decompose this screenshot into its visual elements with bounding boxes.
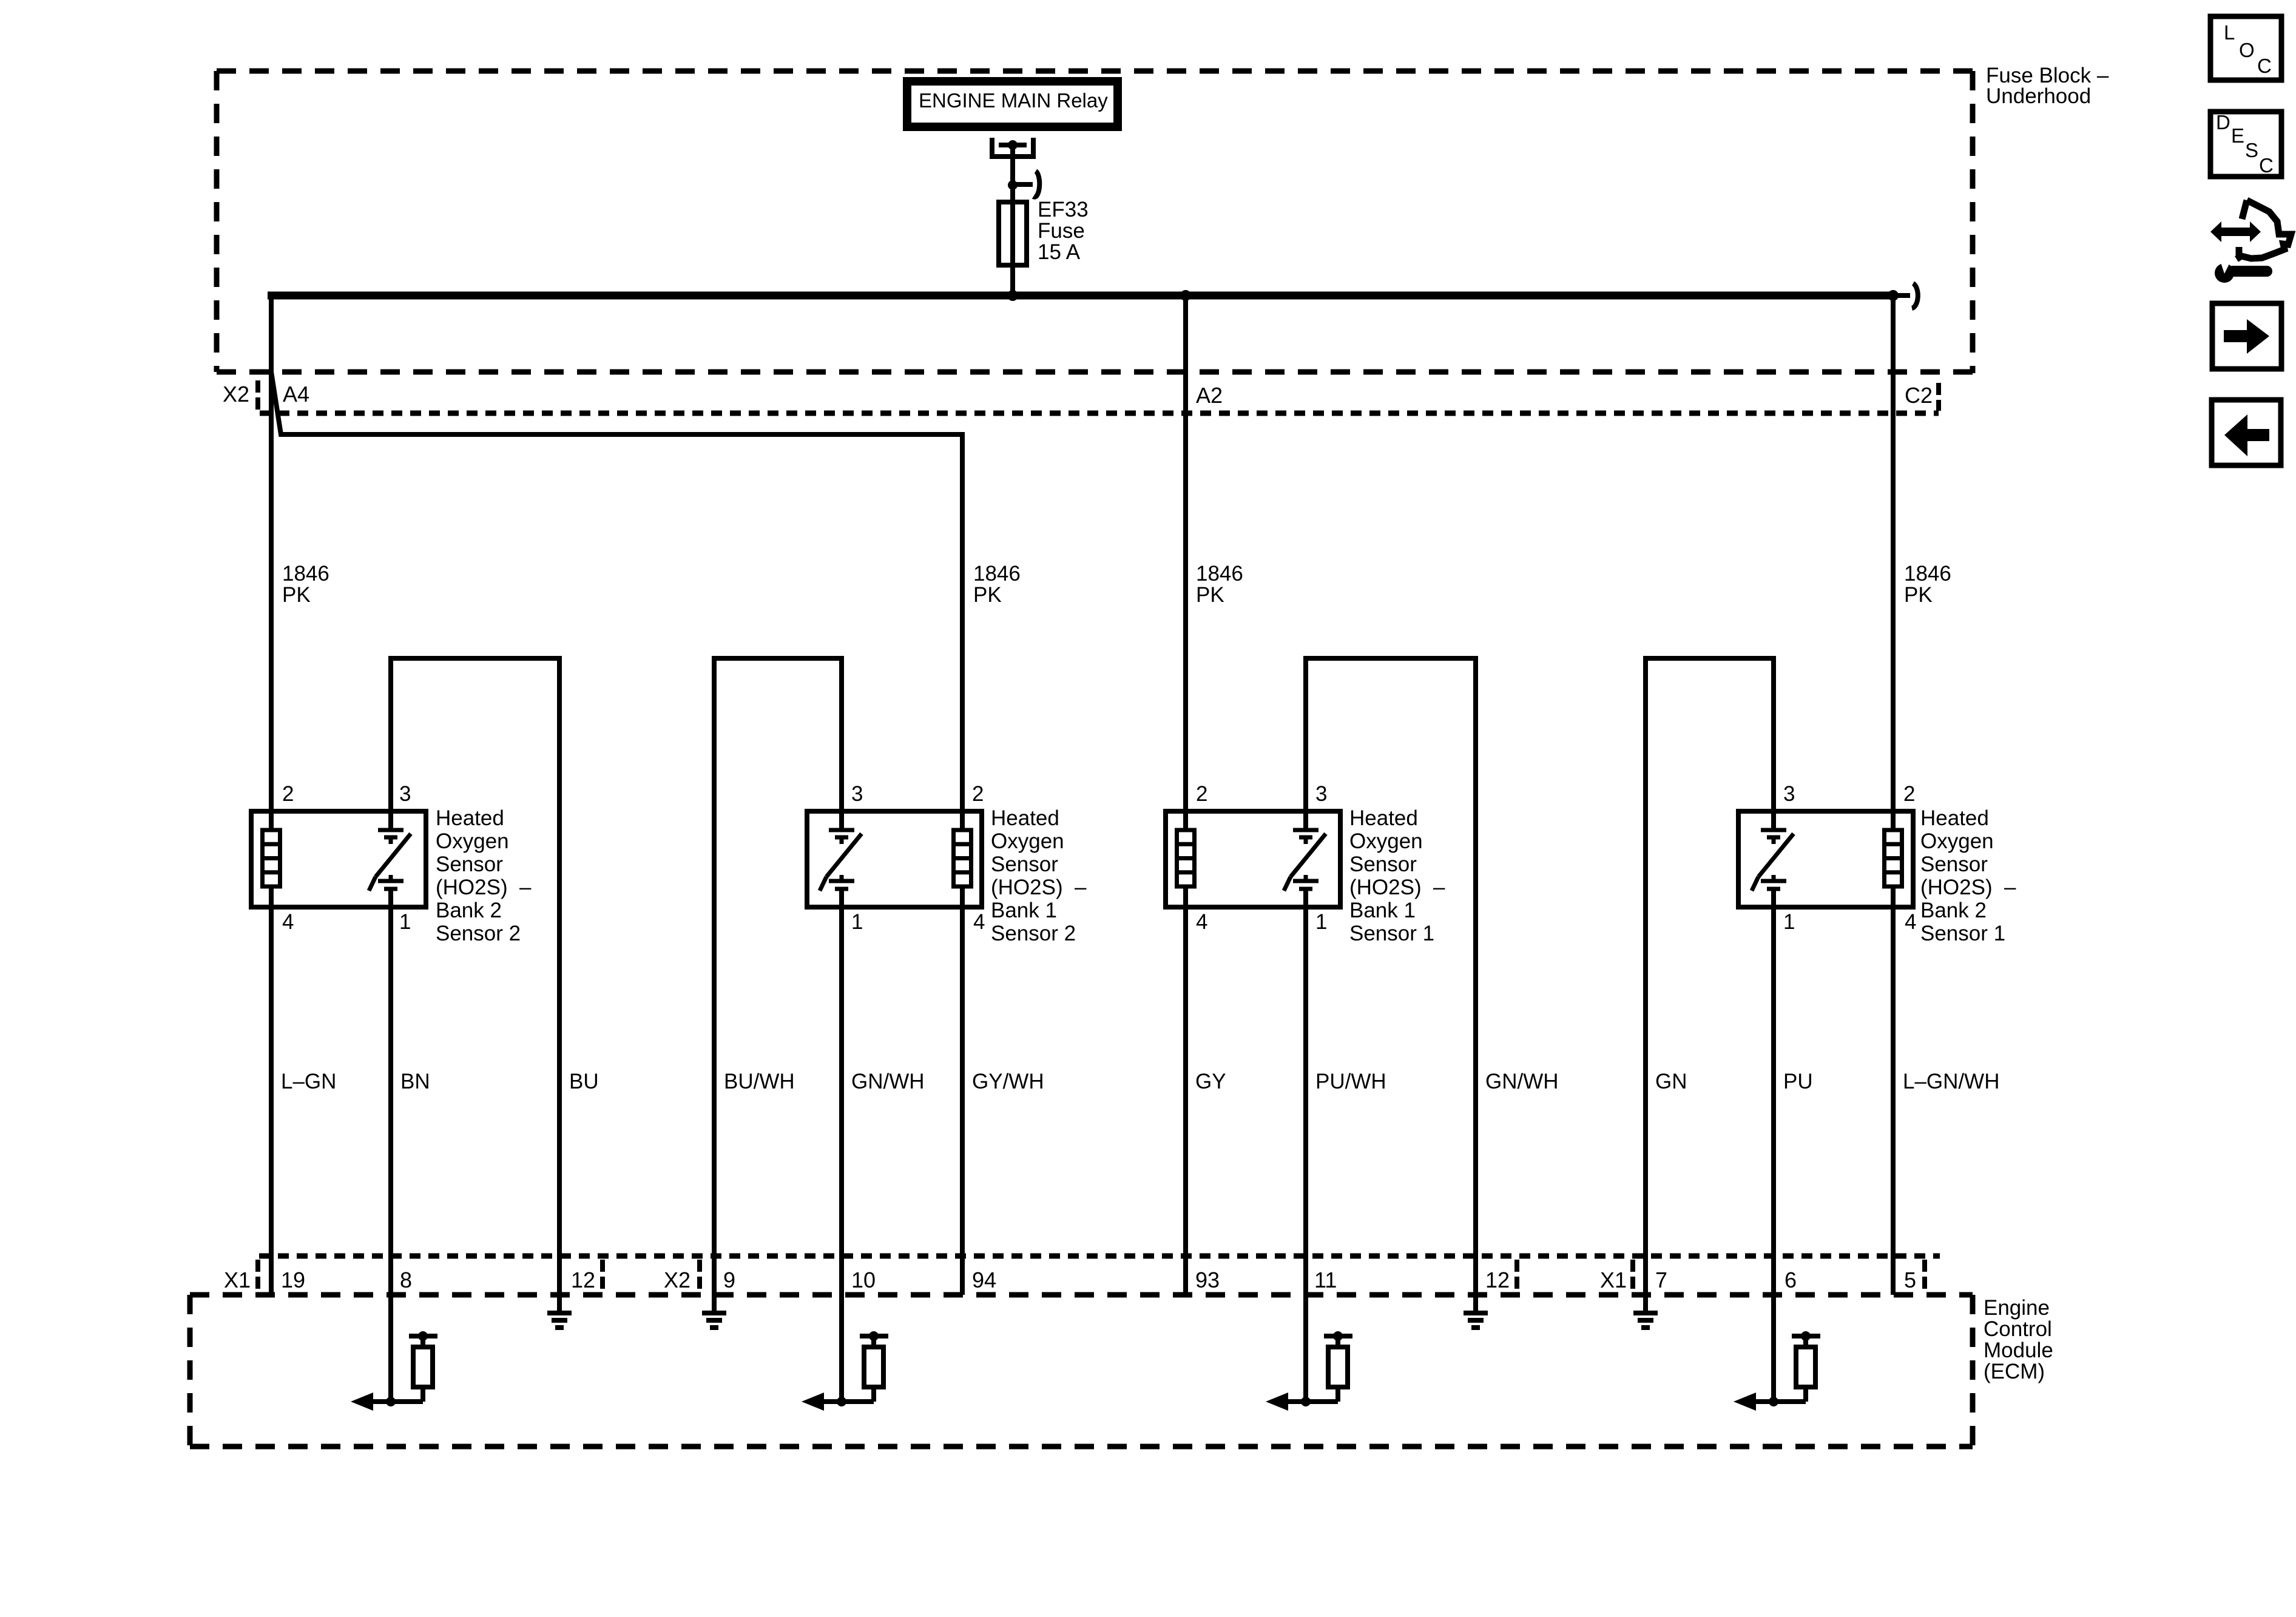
ECM dashed box right border: [1970, 1295, 1976, 1447]
wire A4 branch diagonal and crossover to sensor 2: [271, 372, 962, 811]
heater element bottom plates [B1S1]: [1304, 875, 1308, 881]
svg-text:PK: PK: [973, 583, 1002, 607]
svg-text:PK: PK: [282, 583, 311, 607]
wire bus continuation stub: [1893, 293, 1910, 298]
icon wrench: [2215, 263, 2234, 283]
HO2S sensor box Bank 2 Sensor 1 [B2S1]: [1738, 811, 1913, 907]
heater element bottom plates [B2S1]: [1772, 875, 1776, 881]
svg-text:A4: A4: [283, 382, 309, 407]
svg-text:X2: X2: [664, 1268, 690, 1292]
relay contact throw stub: [1013, 182, 1033, 187]
ground symbol at ECM pin7: [1633, 1311, 1658, 1315]
icon box DESC: [2210, 112, 2281, 177]
ECM internal driver/sense symbol at pin8 (resistor, arrow, junction): [372, 1399, 423, 1404]
svg-text:12: 12: [1485, 1268, 1510, 1292]
svg-text:94: 94: [972, 1268, 996, 1292]
svg-text:X2: X2: [223, 382, 249, 407]
svg-text:1846: 1846: [1904, 562, 1951, 586]
wire loop sensor1 pin3 to ECM pin12: [391, 658, 559, 1311]
svg-text:1: 1: [851, 910, 863, 934]
svg-text:Oxygen: Oxygen: [436, 829, 509, 853]
relay contact bracket: [990, 138, 994, 157]
svg-text:Bank 1: Bank 1: [991, 899, 1057, 922]
svg-text:C: C: [2257, 55, 2272, 77]
ECM connector row dotted line: [259, 1254, 1940, 1259]
svg-text:1: 1: [399, 910, 411, 934]
icon box LOC: [2210, 16, 2281, 80]
svg-text:Sensor: Sensor: [991, 852, 1058, 876]
heater element top plates [B2S2]: [378, 828, 403, 832]
connector separator dash right of C2: [1936, 383, 1941, 411]
heater element top plates [B1S2]: [829, 828, 854, 832]
junction dot bus-C2: [1888, 290, 1899, 301]
svg-text:Oxygen: Oxygen: [1920, 829, 1994, 853]
sensor connector element (4-cell) [B2S1]: [1885, 830, 1902, 886]
svg-text:3: 3: [399, 782, 411, 806]
ECM dashed box left border: [187, 1295, 193, 1447]
svg-text:Heated: Heated: [436, 806, 504, 830]
fuse EF33 body: [999, 202, 1027, 265]
svg-text:PK: PK: [1196, 583, 1224, 607]
icon diagnostic double arrow: [2210, 221, 2221, 242]
heater element switch diagonal [B1S1]: [1291, 834, 1326, 877]
connector row dotted line (fuse block): [260, 411, 1939, 416]
ground symbol at ECM pin9: [702, 1311, 726, 1315]
fuse block underhood dashed box bottom border / connector row upper line: [217, 370, 1973, 375]
svg-text:Bank 1: Bank 1: [1349, 899, 1416, 922]
relay contact armature bar: [999, 143, 1027, 147]
wire loop sensor4 pin3 to ECM pin7: [1646, 658, 1774, 1311]
fuse block underhood dashed box top border: [217, 69, 1973, 74]
svg-text:PU/WH: PU/WH: [1315, 1070, 1386, 1093]
wire sensor1 pin1 to ECM pin8: [388, 890, 393, 1402]
svg-text:C: C: [2259, 154, 2274, 177]
svg-text:GN/WH: GN/WH: [851, 1070, 925, 1093]
HO2S sensor box Bank 2 Sensor 2 [B2S2]: [251, 811, 426, 907]
wire branch vertical to sensor 2 pin 2: [960, 811, 965, 1295]
svg-text:Sensor 1: Sensor 1: [1349, 922, 1434, 945]
svg-text:BN: BN: [400, 1070, 430, 1093]
svg-text:S: S: [2245, 139, 2258, 161]
fuse block underhood dashed box left border: [214, 71, 220, 372]
svg-text:Fuse: Fuse: [1038, 219, 1085, 243]
svg-text:C2: C2: [1905, 383, 1933, 408]
svg-text:BU: BU: [569, 1070, 599, 1093]
svg-text:Oxygen: Oxygen: [1349, 829, 1423, 853]
svg-text:4: 4: [1905, 910, 1916, 934]
svg-text:93: 93: [1195, 1268, 1220, 1292]
wire power bus horizontal: [268, 292, 1893, 300]
wire C2 feed vertical (1846 PK): [1891, 292, 1896, 1295]
wire from relay to bus through fuse: [1010, 202, 1015, 295]
heater element switch diagonal [B2S1]: [1758, 834, 1794, 877]
relay contact junction dot: [1008, 180, 1018, 190]
svg-text:PK: PK: [1904, 583, 1933, 607]
svg-text:BU/WH: BU/WH: [724, 1070, 795, 1093]
svg-text:ENGINE MAIN Relay: ENGINE MAIN Relay: [919, 89, 1108, 112]
svg-text:6: 6: [1784, 1268, 1797, 1292]
svg-text:1846: 1846: [1196, 562, 1243, 586]
svg-text:3: 3: [1315, 782, 1327, 806]
svg-text:2: 2: [1196, 782, 1207, 806]
svg-text:1846: 1846: [973, 562, 1021, 586]
wire A2 feed vertical (1846 PK): [1183, 292, 1188, 1295]
sensor connector element (4-cell) [B2S2]: [263, 830, 280, 886]
svg-text:Bank 2: Bank 2: [436, 899, 502, 922]
svg-text:Heated: Heated: [1349, 806, 1418, 830]
heater element switch diagonal [B1S2]: [826, 834, 862, 877]
svg-text:X1: X1: [224, 1268, 251, 1292]
svg-text:2: 2: [282, 782, 294, 806]
svg-text:Sensor 2: Sensor 2: [991, 922, 1076, 945]
svg-text:A2: A2: [1196, 383, 1223, 408]
svg-text:Heated: Heated: [991, 806, 1059, 830]
svg-text:E: E: [2231, 124, 2244, 147]
connector X2 separator dash: [255, 380, 260, 411]
svg-text:(HO2S): (HO2S): [436, 876, 508, 899]
sensor connector element (4-cell) [B1S1]: [1177, 830, 1195, 886]
svg-text:2: 2: [1903, 782, 1915, 806]
svg-text:3: 3: [1783, 782, 1795, 806]
svg-text:Sensor: Sensor: [436, 852, 503, 876]
icon panel outline: [2242, 200, 2247, 219]
heater element switch diagonal [B2S2]: [376, 834, 411, 877]
ground symbol at ECM pin12: [547, 1311, 572, 1315]
svg-text:Engine: Engine: [1984, 1296, 2050, 1320]
svg-text:4: 4: [973, 910, 985, 934]
svg-text:Underhood: Underhood: [1986, 84, 2091, 108]
ground symbol at ECM pin12b: [1464, 1311, 1488, 1315]
icon box arrow right: [2212, 303, 2281, 369]
svg-text:1: 1: [1783, 910, 1795, 934]
ECM internal driver/sense symbol at pin10 (resistor, arrow, junction): [823, 1399, 874, 1404]
svg-text:12: 12: [571, 1268, 595, 1292]
svg-text:GY/WH: GY/WH: [972, 1070, 1044, 1093]
icon box arrow left: [2212, 400, 2281, 465]
ECM internal driver/sense symbol at pin11 (resistor, arrow, junction): [1287, 1399, 1338, 1404]
svg-text:EF33: EF33: [1038, 198, 1089, 221]
svg-text:–: –: [519, 876, 532, 899]
svg-text:–: –: [2004, 876, 2016, 899]
svg-text:Sensor 1: Sensor 1: [1920, 922, 2005, 945]
ECM box dashed top border / connector row lower line: [190, 1292, 1973, 1298]
svg-text:–: –: [1433, 876, 1445, 899]
svg-text:GY: GY: [1195, 1070, 1226, 1093]
svg-text:L: L: [2224, 21, 2235, 44]
svg-text:GN/WH: GN/WH: [1485, 1070, 1559, 1093]
svg-text:(HO2S): (HO2S): [1920, 876, 1993, 899]
svg-text:8: 8: [400, 1268, 412, 1292]
svg-text:D: D: [2216, 111, 2230, 133]
svg-text:Oxygen: Oxygen: [991, 829, 1064, 853]
svg-text:2: 2: [972, 782, 984, 806]
svg-text:L–GN/WH: L–GN/WH: [1903, 1070, 1999, 1093]
junction dot bus-A2: [1180, 290, 1191, 301]
relay contact pivot dot: [1008, 140, 1018, 150]
svg-text:(HO2S): (HO2S): [991, 876, 1063, 899]
heater element top plates [B2S1]: [1761, 828, 1786, 832]
svg-text:Module: Module: [1984, 1338, 2053, 1362]
heater element top plates [B1S1]: [1293, 828, 1319, 832]
svg-text:Sensor: Sensor: [1920, 852, 1988, 876]
bus continuation hook: [1912, 283, 1918, 308]
ECM internal driver/sense symbol at pin6 (resistor, arrow, junction): [1755, 1399, 1806, 1404]
svg-text:(ECM): (ECM): [1984, 1360, 2045, 1383]
HO2S sensor box Bank 1 Sensor 1 [B1S1]: [1166, 811, 1340, 907]
svg-text:5: 5: [1904, 1268, 1916, 1292]
fuse block underhood dashed box right border: [1970, 71, 1976, 373]
svg-text:1: 1: [1315, 910, 1327, 934]
svg-text:L–GN: L–GN: [281, 1070, 336, 1093]
svg-text:(HO2S): (HO2S): [1349, 876, 1422, 899]
svg-text:9: 9: [723, 1268, 735, 1292]
ECM connector separator dashes: [255, 1260, 260, 1291]
wire loop sensor2 pin3 to ECM pin9: [714, 658, 842, 1311]
svg-text:1846: 1846: [282, 562, 329, 586]
svg-text:–: –: [1075, 876, 1087, 899]
svg-text:O: O: [2239, 39, 2255, 61]
wire sensor4 pin1 to ECM pin6: [1771, 890, 1776, 1402]
svg-text:Sensor: Sensor: [1349, 852, 1417, 876]
heater element bottom plates [B1S2]: [840, 875, 844, 881]
svg-text:10: 10: [851, 1268, 876, 1292]
svg-text:15 A: 15 A: [1038, 240, 1081, 264]
svg-text:11: 11: [1314, 1268, 1337, 1292]
sensor connector element (4-cell) [B1S2]: [954, 830, 971, 886]
junction dot bus-fuse: [1007, 290, 1018, 301]
svg-text:4: 4: [1196, 910, 1207, 934]
svg-text:Control: Control: [1984, 1317, 2052, 1341]
svg-text:X1: X1: [1600, 1268, 1627, 1292]
svg-text:Heated: Heated: [1920, 806, 1989, 830]
svg-text:19: 19: [281, 1268, 305, 1292]
svg-text:4: 4: [282, 910, 294, 934]
wire sensor3 pin1 to ECM pin11: [1303, 890, 1308, 1402]
svg-text:Bank 2: Bank 2: [1920, 899, 1987, 922]
heater element bottom plates [B2S2]: [389, 875, 393, 881]
svg-text:3: 3: [851, 782, 863, 806]
wire sensor2 pin1 to ECM pin10: [839, 890, 844, 1402]
HO2S sensor box Bank 1 Sensor 2 [B1S2]: [807, 811, 982, 907]
svg-text:7: 7: [1655, 1268, 1667, 1292]
ECM dashed box bottom border: [190, 1444, 1973, 1450]
relay contact hook: [1033, 171, 1039, 197]
svg-text:Sensor 2: Sensor 2: [436, 922, 521, 945]
svg-text:GN: GN: [1655, 1070, 1687, 1093]
wire A4 feed vertical (1846 PK): [269, 292, 274, 1295]
wire loop sensor3 pin3 to ECM pin12b: [1306, 658, 1476, 1311]
relay contact stem wire: [1010, 147, 1015, 204]
relay ENGINE MAIN Relay box: [907, 81, 1118, 127]
svg-text:PU: PU: [1783, 1070, 1813, 1093]
